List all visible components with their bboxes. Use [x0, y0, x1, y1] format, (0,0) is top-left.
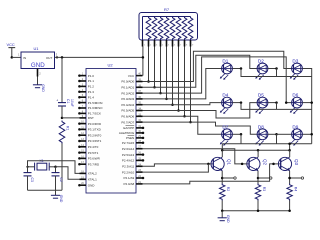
wire P0.6 net to D7 — [143, 116, 222, 134]
terminal Q2 emitter — [258, 177, 272, 179]
svg-text:P1.1: P1.1 — [88, 79, 95, 83]
svg-text:P0.6/AD6: P0.6/AD6 — [121, 114, 134, 118]
svg-text:P3.7/RD: P3.7/RD — [88, 162, 100, 166]
R7 pins — [143, 40, 194, 47]
wire VCC to U1 IN — [12, 56, 21, 58]
svg-text:Q3: Q3 — [294, 159, 299, 166]
resistor R4 — [287, 184, 298, 211]
svg-text:GND: GND — [88, 183, 96, 187]
wire D3 to colC — [302, 69, 311, 144]
node D7 cathode — [232, 133, 242, 136]
LED D4 — [220, 93, 233, 114]
LED D3 — [290, 59, 303, 80]
node D6 feed — [285, 101, 288, 104]
U2 pin overlines — [126, 125, 135, 135]
svg-text:R7: R7 — [164, 7, 170, 12]
wire ground rail crystal — [28, 189, 63, 191]
wire emitter ground rail — [221, 209, 291, 212]
U2 right pins — [119, 73, 144, 186]
svg-text:R1: R1 — [66, 126, 70, 130]
wire Q2 collector — [257, 150, 259, 157]
svg-text:GND: GND — [226, 215, 230, 223]
wire colB to D9 left — [277, 133, 292, 135]
svg-text:C3: C3 — [30, 178, 34, 182]
svg-text:VCC: VCC — [128, 74, 135, 78]
LED D1 — [220, 59, 233, 80]
wire row2 under-line — [241, 103, 312, 110]
svg-text:P0.4/AD4: P0.4/AD4 — [121, 103, 134, 107]
svg-text:IN: IN — [23, 56, 26, 60]
svg-text:P2.2/A10: P2.2/A10 — [122, 170, 135, 174]
node D6 colC — [302, 101, 313, 104]
svg-text:EA/VPP: EA/VPP — [123, 126, 134, 130]
svg-text:P1.7/SCK: P1.7/SCK — [88, 112, 101, 116]
svg-text:XTAL2: XTAL2 — [88, 172, 97, 176]
wire Q1 collector — [221, 150, 223, 157]
svg-text:C1: C1 — [66, 99, 70, 103]
svg-text:P2.0/A8: P2.0/A8 — [124, 182, 135, 186]
capacitor C3 — [24, 167, 34, 191]
svg-text:VCC: VCC — [7, 42, 15, 47]
node D5 cathode — [268, 101, 278, 104]
svg-text:P1.6/MISO: P1.6/MISO — [88, 106, 103, 110]
wire Q2 emitter — [257, 171, 260, 184]
svg-text:P3.6/WR: P3.6/WR — [88, 157, 101, 161]
wire collector rail — [221, 149, 291, 152]
op-amp U2 body — [86, 63, 136, 193]
wire P0.3 net to D1 — [143, 69, 222, 99]
svg-text:U2: U2 — [108, 63, 114, 68]
node crystal right — [54, 166, 57, 169]
svg-text:P3.1/TXD: P3.1/TXD — [88, 128, 102, 132]
wire P0.4 net to D4 — [143, 103, 222, 105]
resistor network R7 — [139, 7, 198, 40]
wire Q3 emitter — [288, 171, 291, 184]
svg-text:P0.7/AD7: P0.7/AD7 — [121, 120, 134, 124]
node D4 cathode — [232, 101, 242, 104]
node crystal left — [26, 166, 28, 168]
node D2 cathode — [268, 67, 278, 70]
svg-text:P1.3: P1.3 — [88, 90, 95, 94]
terminal Q3 emitter — [288, 177, 303, 180]
wire P0.1 net to D2 — [143, 55, 258, 87]
ground below R2 — [218, 211, 230, 223]
svg-text:P2.3/A11: P2.3/A11 — [122, 164, 134, 168]
svg-text:R3: R3 — [262, 187, 266, 191]
node D1 cathode — [232, 67, 242, 70]
wire R7 common to VCC rail and U2 VCC — [142, 47, 145, 76]
svg-text:P3.0/RXD: P3.0/RXD — [88, 122, 102, 126]
svg-text:P0.3/AD3: P0.3/AD3 — [121, 97, 134, 101]
LED D6 — [290, 93, 303, 114]
wire row3 under-line — [222, 143, 311, 145]
wire P0.2 net to D6 — [143, 57, 292, 103]
svg-text:U1: U1 — [34, 46, 39, 51]
resistor R1 — [59, 121, 69, 144]
wire P2.6 to Q2 base — [143, 149, 247, 165]
svg-text:P2.6/A14: P2.6/A14 — [122, 147, 135, 151]
wires R7 pins to P0 bus — [147, 47, 192, 124]
wire VCC rail to C1 — [61, 56, 64, 102]
transistor Q1 — [211, 157, 232, 171]
svg-text:P0.5/AD5: P0.5/AD5 — [121, 109, 134, 113]
svg-text:OUT: OUT — [46, 56, 53, 60]
svg-text:P3.5/T1: P3.5/T1 — [88, 151, 99, 155]
U2 left pins — [78, 73, 103, 188]
LED D2 — [255, 59, 268, 80]
resistor R2 — [220, 184, 231, 211]
wire P2.0 to Q3 base — [143, 163, 279, 184]
regulator U1 — [18, 46, 58, 75]
svg-text:P1.2: P1.2 — [88, 85, 95, 89]
svg-text:C2: C2 — [59, 178, 63, 182]
wire VCC rail — [55, 56, 143, 58]
svg-text:GND: GND — [59, 195, 63, 203]
wire P2.2 to Q1 base node — [143, 164, 209, 172]
resistor R3 — [255, 184, 266, 211]
LED D7 — [220, 124, 233, 145]
wire Q1 emitter — [221, 171, 224, 184]
svg-text:P1.5/MOSI: P1.5/MOSI — [88, 101, 103, 105]
LED D5 — [255, 93, 268, 114]
svg-text:XTAL1: XTAL1 — [88, 177, 97, 181]
wire D8 drop to row3 under-line — [276, 134, 278, 143]
wire RST — [62, 117, 80, 119]
node D9 colC — [302, 133, 313, 136]
svg-text:GND: GND — [31, 62, 45, 69]
svg-text:ALE/PROG: ALE/PROG — [119, 131, 135, 135]
crystal X1 — [28, 159, 56, 171]
terminal Q1 emitter — [222, 177, 236, 179]
wire P2.3 to Q1 base — [143, 163, 212, 167]
wire Q3 collector — [289, 150, 291, 157]
svg-text:P0.0/AD0: P0.0/AD0 — [121, 80, 134, 84]
wire under-line to Q3 collector — [288, 142, 291, 150]
wire D5 drop to row2 under-line — [276, 103, 278, 110]
svg-text:GND: GND — [41, 84, 45, 92]
wire U1 GND pin down — [37, 69, 39, 77]
svg-text:P3.2/INT0: P3.2/INT0 — [88, 133, 102, 137]
svg-text:RST: RST — [88, 116, 94, 120]
transistor Q3 — [278, 157, 299, 171]
wire C1 to RST node — [61, 106, 64, 119]
node D8 cathode — [268, 133, 278, 136]
wire under-line to Q1 collector — [221, 144, 223, 151]
LED D9 — [290, 124, 303, 145]
svg-text:Q1: Q1 — [227, 159, 232, 166]
svg-text:P2.7/A15: P2.7/A15 — [122, 141, 135, 145]
power symbol VCC — [7, 42, 16, 58]
ground below U1 — [33, 77, 45, 93]
svg-text:R4: R4 — [294, 187, 298, 191]
svg-text:Q2: Q2 — [262, 159, 267, 166]
wire D7 drop to row3 under-line — [240, 134, 242, 143]
capacitor C2 — [52, 167, 63, 191]
svg-text:P2.1/A9: P2.1/A9 — [124, 176, 135, 180]
transistor Q2 — [247, 157, 268, 171]
wire XTAL1 route — [56, 167, 80, 180]
svg-text:10uF: 10uF — [70, 99, 74, 107]
wire R1 to ground rail — [61, 144, 63, 191]
svg-text:PSEN: PSEN — [126, 136, 134, 140]
wire XTAL2 route — [28, 161, 80, 174]
svg-text:P3.3/INT1: P3.3/INT1 — [88, 139, 102, 143]
svg-text:+: + — [56, 98, 58, 102]
wire P0.5 net to D5 — [143, 103, 258, 118]
svg-text:P0.1/AD1: P0.1/AD1 — [121, 85, 134, 89]
svg-text:P1.4: P1.4 — [88, 95, 95, 99]
svg-text:P2.4/A12: P2.4/A12 — [122, 159, 135, 163]
svg-text:P1.0: P1.0 — [88, 74, 95, 78]
wire D2 drop to row1 under-line — [276, 69, 278, 77]
svg-text:R2: R2 — [226, 187, 230, 191]
wire P0.0 net to D3 — [143, 51, 292, 81]
wire row1 under-line — [241, 69, 312, 77]
ground below crystal — [51, 190, 63, 203]
wire P0.7 net to D8 — [143, 122, 258, 134]
LED D8 — [255, 124, 268, 145]
U1 output pin dot — [56, 56, 58, 58]
svg-text:P0.2/AD2: P0.2/AD2 — [121, 91, 134, 95]
svg-text:P2.5/A13: P2.5/A13 — [122, 153, 135, 157]
capacitor C1 — [56, 98, 74, 106]
svg-text:P3.4/T0: P3.4/T0 — [88, 145, 99, 149]
